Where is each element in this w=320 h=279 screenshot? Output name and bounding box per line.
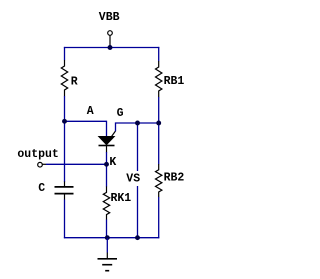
wire: right branch upper — [158, 47, 160, 61]
thyristor gate lead (black diagonal) — [110, 131, 115, 138]
junction dot: anode tap on left branch — [62, 119, 67, 124]
svg-text:RB2: RB2 — [164, 172, 185, 185]
svg-text:A: A — [87, 105, 94, 118]
resistor R — [61, 60, 67, 96]
svg-text:G: G — [117, 107, 124, 120]
label output — [17, 148, 58, 161]
junction dot: cathode K node — [104, 162, 109, 167]
label VBB — [99, 11, 120, 24]
svg-text:RK1: RK1 — [111, 192, 132, 205]
svg-text:VS: VS — [126, 173, 140, 186]
node G label — [117, 107, 124, 120]
capacitor C — [55, 182, 74, 200]
junction dot: VS line on bottom rail — [135, 235, 140, 240]
node A label — [87, 105, 94, 118]
wire: ground stub (blue part) — [106, 238, 108, 253]
ground symbol — [98, 253, 118, 271]
svg-text:R: R — [71, 75, 78, 88]
svg-text:K: K — [109, 156, 116, 169]
wire: top rail VBB — [64, 47, 159, 49]
wire: cathode down to RK1 — [106, 152, 108, 187]
junction dot: ground tap on bottom rail — [105, 235, 110, 240]
wire: left branch upper — [64, 47, 66, 60]
wire: anode drop into SCR — [106, 121, 108, 137]
resistor RB1 — [156, 61, 162, 97]
wire: VBB terminal lead — [109, 35, 111, 47]
node K label — [109, 156, 116, 169]
thyristor SCR: triangle and cathode bar — [99, 136, 115, 152]
svg-text:C: C — [38, 182, 45, 195]
wire: right branch middle — [158, 97, 160, 164]
label RB1 value — [164, 75, 185, 88]
label C value — [38, 182, 45, 195]
wire: VS net upper segment — [137, 122, 139, 171]
svg-text:output: output — [17, 148, 58, 161]
svg-text:RB1: RB1 — [164, 75, 185, 88]
svg-text:VBB: VBB — [99, 11, 120, 24]
junction dot: VBB tap on top rail — [108, 45, 113, 50]
junction dot: gate wire at right branch — [156, 121, 161, 126]
wire: bottom rail — [64, 237, 159, 239]
label R value — [71, 75, 78, 88]
wire: VS net lower segment — [137, 186, 139, 238]
resistor RK1 — [103, 186, 109, 219]
junction dot: VS line on gate wire — [135, 121, 140, 126]
wire: left branch lower — [64, 200, 66, 239]
resistor RB2 — [156, 164, 162, 197]
port: output terminal circle — [38, 162, 43, 167]
net VS label — [126, 173, 140, 186]
port: VBB terminal circle — [108, 31, 113, 36]
wire: gate wire to right branch — [116, 123, 160, 131]
label RB2 value — [164, 172, 185, 185]
wire: right branch lower — [158, 197, 160, 238]
label RK1 value — [111, 192, 132, 205]
wire: output wire — [42, 163, 107, 165]
wire: anode wire from left branch to SCR — [65, 120, 107, 122]
wire: RK1 bottom to rail — [106, 220, 108, 239]
wire: left branch middle — [64, 96, 66, 182]
